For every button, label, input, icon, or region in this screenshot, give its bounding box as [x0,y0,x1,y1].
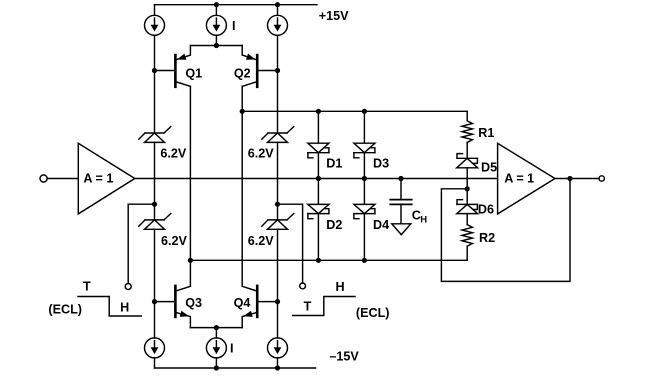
node track control tap right [275,202,280,207]
wire I6 bottom stub [277,358,279,368]
wire D6 to R2 [466,214,468,225]
svg-text:R2: R2 [479,231,495,245]
current source I3 [268,15,288,35]
zener Z4 6.2V [262,214,294,230]
node hold cap junction [398,176,403,181]
wire column C upper (I3 to Z3) [277,35,279,133]
wire column C lower (Z4 to Q4 and I6) [277,229,279,338]
wire D1 top stub [317,111,319,143]
resistor R1 [462,121,472,143]
svg-text:A = 1: A = 1 [83,172,113,186]
wire Q4 base [259,301,278,303]
node Q4 base junction [275,299,280,304]
node bottom rail junction B [214,365,219,370]
resistor R2 [462,225,472,247]
capacitor CH [390,200,411,205]
diode D2 [308,204,329,218]
wire column A upper (I1 to zener Z1) [154,35,156,133]
wire I4 bottom stub [154,358,156,368]
svg-text:6.2V: 6.2V [161,234,188,248]
zener Z3 6.2V [262,127,294,143]
node bottom rail junction C [275,365,280,370]
wire I5 bottom stub [215,358,217,368]
wire R1 top feed [466,111,468,121]
wire Q2 base [259,70,278,72]
wire D1 bottom stub [317,153,319,205]
node emitter junction top [214,43,219,48]
svg-text:A = 1: A = 1 [504,172,534,186]
terminal control left [125,284,131,290]
svg-text:D1: D1 [326,157,342,171]
wire Q1 collector column [189,86,191,286]
node bridge bottom D2 [316,258,321,263]
op-amp U1 [78,143,135,214]
diode D1 [308,143,329,158]
wire D4 bottom stub [363,214,365,261]
wire bridge top line [242,110,467,112]
svg-text:+15V: +15V [319,9,349,23]
current source I1 [145,15,165,35]
svg-text:D4: D4 [373,218,389,232]
svg-text:Q2: Q2 [234,66,251,80]
svg-text:(ECL): (ECL) [356,306,390,320]
diode D5 [457,154,478,168]
svg-text:Q4: Q4 [234,296,251,310]
node top rail junction C [275,2,280,7]
wire R2 to bridge bottom [466,246,468,260]
op-amp U1 input terminal [40,175,47,182]
wire Q3 Q4 emitter bus [190,328,242,338]
wire current source I1 top stub [154,5,156,16]
wire R1 to D5 [466,142,468,158]
svg-text:D5: D5 [481,161,497,175]
node top rail junction B [214,2,219,7]
node output junction [567,176,572,181]
svg-text:6.2V: 6.2V [248,147,275,161]
zener Z1 6.2V [139,127,171,143]
wire column A lower (Z2 to Q3 and I4) [154,229,156,338]
diode D3 [354,143,375,158]
current source I6 [268,338,288,358]
node clamp midpoint [465,186,470,191]
wire control tap right [278,204,303,283]
svg-text:6.2V: 6.2V [160,147,187,161]
diode D6 [457,200,478,214]
wire bridge bottom line [190,259,467,261]
wire Q1 base [155,70,175,72]
current source I5 [206,338,226,358]
node Q1 base junction [152,68,157,73]
diode D4 [354,204,375,218]
svg-text:H: H [120,300,129,314]
wire hold cap stub [400,179,402,200]
wire Q1 Q2 emitter bus [190,35,242,45]
waveform ECL left [78,297,141,317]
svg-text:Q3: Q3 [185,296,202,310]
op-amp U2 [498,143,555,214]
wire bottom -15V rail [155,367,316,369]
svg-text:D2: D2 [326,218,342,232]
ground [392,224,411,235]
svg-text:D6: D6 [478,203,494,217]
node Q2 base junction [275,68,280,73]
svg-text:6.2V: 6.2V [248,234,275,248]
svg-text:H: H [420,215,427,226]
node bridge top D3 [362,109,367,114]
node emitter junction bottom [214,325,219,330]
wire U1 input [47,178,78,180]
svg-text:T: T [304,300,312,314]
terminal control right [300,283,306,289]
transistor Q1 [175,46,190,87]
wire main signal line [135,178,498,180]
wire control tap left [128,204,154,283]
svg-text:–15V: –15V [329,350,359,364]
op-amp U2 output terminal [599,176,604,181]
wire D2 bottom stub [317,214,319,261]
node Q3 base junction [152,299,157,304]
svg-text:R1: R1 [478,126,494,140]
svg-text:(ECL): (ECL) [48,303,82,317]
wire Q3 base [155,301,175,303]
wire top +15V rail [155,4,318,6]
svg-text:T: T [83,279,91,293]
wire current source I2 top stub [215,5,217,16]
wire D5 to clamp node [466,168,468,205]
wire current source I3 top stub [277,5,279,16]
node track control tap left [152,202,157,207]
waveform ECL right [293,297,355,316]
wire Q2 collector column [241,86,243,286]
node bridge bottom Q1 Q3 collector [188,258,193,263]
wire column A middle (Z1 to Z2) [154,142,156,220]
zener Z2 6.2V [139,214,171,230]
wire U2 output [555,178,599,180]
svg-text:D3: D3 [373,157,389,171]
node D3 D4 junction [362,176,367,181]
svg-text:I: I [232,19,236,33]
label CH [412,209,428,226]
svg-text:H: H [336,280,345,294]
node D1 D2 junction [316,176,321,181]
node bridge top D1 [316,109,321,114]
wire cap to ground [400,204,402,223]
transistor Q4 [242,286,257,328]
wire D3 bottom stub [363,153,365,205]
node bridge top Q2 collector [240,109,245,114]
current source I2 [206,15,226,35]
transistor Q2 [242,46,257,87]
svg-text:I: I [230,341,234,355]
svg-text:Q1: Q1 [185,66,202,80]
node bridge bottom D4 [362,258,367,263]
wire feedback loop [441,179,570,282]
transistor Q3 [175,286,190,328]
wire D3 top stub [363,111,365,143]
current source I4 [145,338,165,358]
wire column C middle (Z3 to Z4) [277,142,279,220]
